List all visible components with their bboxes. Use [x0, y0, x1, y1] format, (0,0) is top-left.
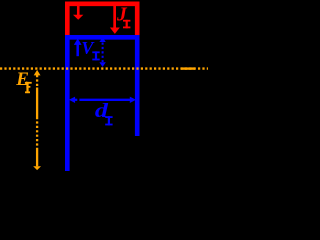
arrow: red current direction arrow (short, left inside loop) — [73, 5, 83, 19]
arrow: orange vertical double arrow below Fermi level (broken stem) — [33, 70, 41, 170]
label subscript I of J — [123, 20, 130, 29]
arrow: blue dashed double-headed arrow (V measurement) — [99, 37, 105, 67]
label subscript I of V — [92, 51, 99, 60]
arrow: red current arrow J (tall, from top rail to blue line) — [110, 5, 120, 34]
wire: orange long dash segment of Fermi line — [181, 67, 195, 69]
wire: blue right electrode band edge (vertical) — [135, 35, 140, 136]
arrow: blue solid up arrow beside V — [74, 39, 82, 57]
wire: orange dotted Fermi level line — [0, 67, 208, 69]
wire: blue barrier top (horizontal band line) — [65, 35, 140, 40]
arrow: blue horizontal double arrow d (barrier width) — [69, 97, 136, 103]
wire: red current-loop top (left riser, top rail, right riser) — [67, 4, 137, 38]
svg-text:d: d — [95, 99, 109, 121]
wire: blue left electrode band edge (vertical) — [65, 35, 70, 171]
label subscript I of d — [105, 116, 112, 125]
label subscript F of E — [25, 82, 32, 93]
svg-text:V: V — [81, 38, 95, 58]
